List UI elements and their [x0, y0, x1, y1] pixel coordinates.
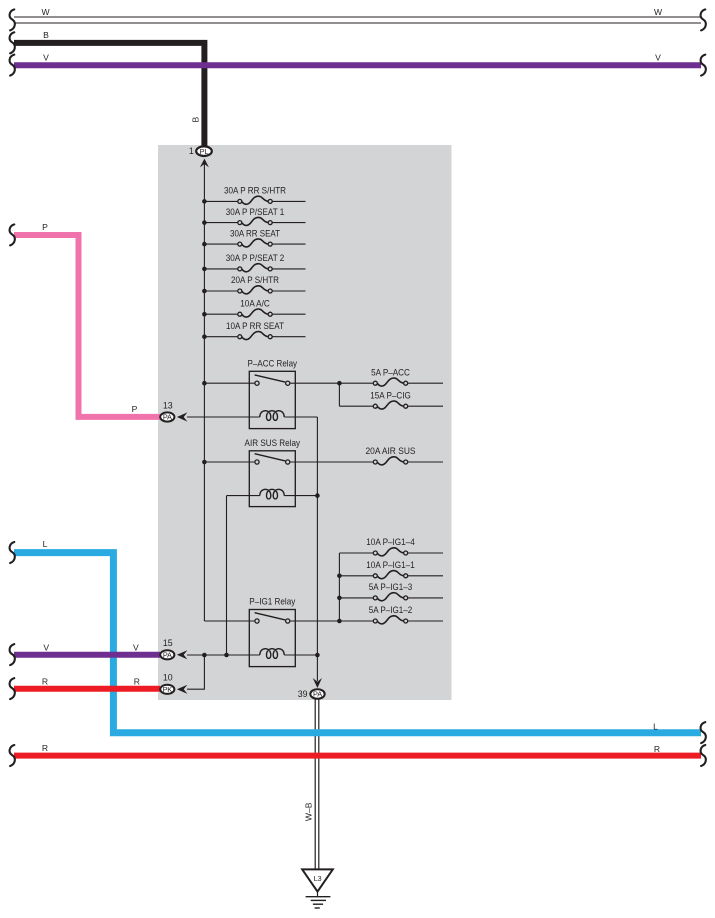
break symbol W right: [701, 9, 706, 30]
svg-text:10A A/C: 10A A/C: [240, 297, 270, 308]
wire P-IG1 switch out: [290, 620, 340, 622]
P-IG1 coil: [260, 649, 284, 659]
wire B (thick black, turns down into PL): [14, 43, 204, 147]
junction on bus row1: [202, 199, 207, 204]
junction bus / AIR SUS switch: [202, 460, 207, 465]
fuse 20A AIR SUS: [366, 445, 444, 465]
relay P-ACC box U1: [249, 371, 295, 428]
fuse 5A P-ACC: [339, 366, 443, 386]
junction P-IG1 out / ladder: [337, 619, 342, 624]
svg-text:15: 15: [163, 638, 173, 648]
fuse 5A P-IG1-2: [339, 604, 443, 624]
arrow into PL: [200, 159, 209, 168]
break symbol L right: [701, 722, 706, 743]
AIR SUS switch contacts: [255, 454, 290, 464]
arrow into 15 PA: [177, 650, 188, 659]
fuse 30A RR SEAT: [204, 227, 305, 247]
arrow into 10 PK: [177, 685, 188, 694]
fuse 10A P-IG1-4: [339, 536, 443, 556]
wire AIR SUS coil left drop: [226, 496, 228, 655]
svg-text:W: W: [41, 7, 50, 17]
svg-text:L: L: [653, 722, 658, 732]
wire bus to P-IG1 switch: [204, 620, 255, 622]
svg-text:5A P–IG1–2: 5A P–IG1–2: [369, 604, 413, 615]
junction ladder row2: [337, 574, 342, 579]
svg-text:L: L: [43, 539, 48, 549]
svg-text:30A RR SEAT: 30A RR SEAT: [230, 227, 280, 238]
wire tee down to 10 PK: [187, 655, 204, 689]
svg-text:10A P–IG1–4: 10A P–IG1–4: [366, 536, 415, 547]
svg-text:R: R: [42, 743, 48, 753]
wire ladder riser: [338, 553, 340, 621]
main bus wire from PL: [203, 162, 205, 621]
P-IG1 switch contacts: [255, 613, 290, 623]
svg-text:30A P RR S/HTR: 30A P RR S/HTR: [224, 185, 286, 196]
svg-text:AIR SUS Relay: AIR SUS Relay: [245, 437, 301, 448]
arrow into 13 PA: [177, 412, 188, 421]
break symbol R2 left: [10, 678, 15, 699]
svg-text:PK: PK: [163, 685, 173, 694]
svg-text:1: 1: [189, 146, 194, 156]
svg-text:PA: PA: [313, 690, 322, 699]
svg-text:PA: PA: [163, 413, 172, 422]
svg-text:V: V: [43, 643, 49, 653]
svg-text:30A P P/SEAT 1: 30A P P/SEAT 1: [226, 206, 285, 217]
fuse 20A P S/HTR: [204, 274, 305, 294]
svg-text:B: B: [191, 116, 201, 122]
svg-text:5A P–IG1–3: 5A P–IG1–3: [369, 581, 413, 592]
svg-text:PL: PL: [200, 147, 209, 156]
fuse 30A P RR S/HTR: [204, 185, 305, 205]
relay AIR SUS box U2: [249, 451, 295, 507]
wire W (top, white wire as double line): [14, 17, 701, 23]
svg-text:R: R: [654, 744, 660, 754]
svg-text:P: P: [132, 404, 138, 414]
wire AIR SUS coil out: [284, 495, 317, 497]
wire R (middle red to 10 PK): [14, 686, 160, 692]
junction on bus row7: [202, 334, 207, 339]
fuse 10A A/C: [204, 297, 305, 317]
svg-text:W–B: W–B: [303, 802, 313, 821]
wire AIR SUS coil left: [227, 495, 260, 497]
wire P (pink: from left, down, to 13 PA): [14, 235, 160, 417]
svg-text:5A P–ACC: 5A P–ACC: [371, 366, 410, 377]
wire R (bottom red, full width): [14, 753, 701, 759]
junction AIR SUS coil / drop: [315, 493, 320, 498]
svg-text:L3: L3: [314, 874, 322, 883]
P-ACC switch contacts: [255, 375, 290, 385]
wire bus to P-ACC switch: [204, 382, 255, 384]
wire V (middle violet to 15 PA): [14, 652, 160, 658]
P-ACC coil: [260, 411, 284, 421]
junction P-ACC out / fuse branch: [337, 381, 342, 386]
junction on bus row2: [202, 220, 207, 225]
arrow into 39 PA: [313, 678, 322, 688]
wire bus to AIR SUS switch: [204, 461, 255, 463]
junction on bus row6: [202, 312, 207, 317]
wire branch down to 15A P-CIG: [338, 383, 340, 406]
connector 39 PA: [310, 689, 324, 699]
junction on bus row3: [202, 242, 207, 247]
fuse 30A P P/SEAT 1: [204, 206, 305, 226]
connector 15 PA: [160, 650, 174, 659]
break symbol L left: [10, 542, 15, 563]
wire relay coils junction drop: [316, 417, 318, 681]
break symbol R bottom right: [701, 745, 706, 766]
break symbol W left: [10, 9, 15, 30]
relay P-IG1 box U3: [249, 610, 295, 667]
wire P-IG1 coil out: [284, 654, 317, 656]
svg-text:13: 13: [163, 401, 173, 411]
junction block (gray box): [158, 145, 452, 700]
svg-text:V: V: [655, 52, 661, 62]
svg-text:V: V: [43, 52, 49, 62]
break symbol B left: [10, 32, 15, 53]
AIR SUS coil: [260, 489, 284, 499]
svg-text:15A P–CIG: 15A P–CIG: [370, 389, 411, 400]
wire L (light blue: from left, down, across bottom): [14, 553, 701, 733]
break symbol V right: [701, 55, 706, 76]
svg-text:R: R: [134, 677, 140, 687]
svg-text:R: R: [42, 677, 48, 687]
fuse 15A P-CIG: [339, 389, 443, 409]
svg-text:20A P S/HTR: 20A P S/HTR: [231, 274, 279, 285]
fuse 30A P P/SEAT 2: [204, 252, 305, 272]
svg-text:20A AIR SUS: 20A AIR SUS: [366, 445, 416, 456]
svg-text:PA: PA: [163, 651, 172, 660]
wire AIR SUS switch out to fuse: [290, 461, 376, 463]
ground L3: [302, 869, 333, 908]
break symbol P left: [10, 224, 15, 245]
break symbol V left: [10, 55, 15, 76]
svg-text:10: 10: [163, 672, 173, 682]
break symbol R bottom left: [10, 745, 15, 766]
fuse 5A P-IG1-3: [339, 581, 443, 601]
wire 13 PA to P-ACC coil: [187, 416, 260, 418]
svg-text:P–ACC Relay: P–ACC Relay: [248, 357, 298, 368]
connector PL pin 1: [196, 146, 212, 156]
svg-text:30A P P/SEAT 2: 30A P P/SEAT 2: [226, 252, 285, 263]
wire V (top violet): [14, 62, 701, 68]
junction coil out / ground drop: [315, 653, 320, 658]
svg-text:10A P RR SEAT: 10A P RR SEAT: [226, 320, 284, 331]
wire P-ACC coil out: [284, 416, 317, 418]
wire W-B (white wire to ground): [315, 699, 319, 869]
svg-text:10A P–IG1–1: 10A P–IG1–1: [366, 559, 415, 570]
junction coil line / AIR SUS drop: [224, 653, 229, 658]
junction bus / P-ACC switch: [202, 381, 207, 386]
svg-text:W: W: [654, 7, 663, 17]
wire 15 PA to P-IG1 coil: [187, 654, 260, 656]
junction coil line / bus tee: [202, 653, 207, 658]
junction ladder row3: [337, 596, 342, 601]
break symbol V2 left: [10, 644, 15, 665]
svg-text:B: B: [43, 30, 49, 40]
svg-text:39: 39: [298, 689, 308, 699]
svg-text:P: P: [42, 222, 48, 232]
wire P-ACC switch out: [290, 382, 340, 384]
junction on bus row5: [202, 289, 207, 294]
svg-text:P–IG1 Relay: P–IG1 Relay: [249, 596, 295, 607]
connector 10 PK: [160, 685, 174, 694]
junction on bus row4: [202, 267, 207, 272]
fuse 10A P RR SEAT: [204, 320, 305, 340]
connector 13 PA: [160, 412, 174, 421]
fuse 10A P-IG1-1: [339, 559, 443, 579]
svg-text:V: V: [133, 643, 139, 653]
